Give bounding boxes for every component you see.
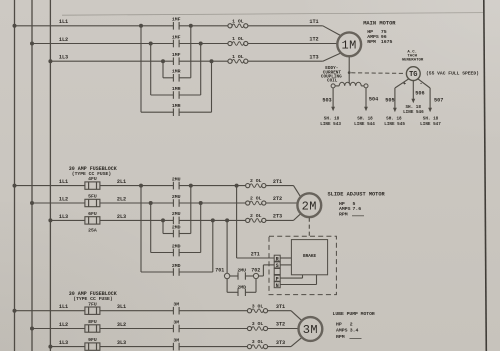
svg-text:3L2: 3L2	[117, 322, 126, 328]
svg-text:2T1: 2T1	[251, 251, 260, 257]
svg-text:2MU: 2MU	[172, 176, 181, 182]
svg-text:2M: 2M	[302, 199, 317, 213]
svg-text:504: 504	[369, 97, 378, 103]
svg-text:701: 701	[215, 267, 224, 273]
svg-text:503: 503	[322, 97, 331, 103]
svg-text:3M: 3M	[173, 302, 179, 308]
svg-text:GENERATOR: GENERATOR	[402, 59, 424, 63]
svg-text:2L3: 2L3	[117, 214, 126, 220]
svg-text:3M: 3M	[173, 337, 179, 343]
svg-text:1L3: 1L3	[59, 214, 68, 220]
svg-text:1M: 1M	[341, 39, 356, 53]
svg-text:2T1: 2T1	[273, 179, 282, 185]
svg-text:1L3: 1L3	[59, 55, 68, 61]
svg-text:LINE 545: LINE 545	[384, 122, 405, 127]
svg-text:1L2: 1L2	[59, 196, 68, 202]
svg-text:TG: TG	[409, 71, 417, 79]
svg-text:1MR: 1MR	[172, 103, 181, 109]
svg-text:1L1: 1L1	[59, 19, 68, 25]
svg-text:7FU: 7FU	[88, 301, 97, 307]
svg-text:1L1: 1L1	[59, 179, 68, 185]
svg-text:(TYPE CC FUSE): (TYPE CC FUSE)	[73, 296, 113, 302]
svg-text:1 OL: 1 OL	[232, 54, 244, 60]
svg-text:506: 506	[415, 91, 424, 97]
svg-text:RPM: RPM	[336, 334, 345, 340]
svg-text:5FU: 5FU	[88, 194, 97, 200]
svg-text:RPM: RPM	[339, 211, 348, 217]
svg-text:1MF: 1MF	[172, 17, 181, 23]
svg-text:1MR: 1MR	[172, 69, 181, 75]
svg-text:LINE 546: LINE 546	[403, 110, 424, 115]
svg-text:4FU: 4FU	[88, 176, 97, 182]
svg-text:2 OL: 2 OL	[250, 178, 262, 184]
svg-text:1 OL: 1 OL	[232, 18, 244, 24]
svg-text:3M: 3M	[173, 319, 179, 325]
svg-text:3 OL: 3 OL	[252, 339, 264, 345]
svg-text:3T3: 3T3	[276, 340, 285, 346]
svg-text:2MU: 2MU	[172, 194, 181, 200]
svg-text:2MD: 2MD	[172, 243, 181, 249]
svg-text:(55 VAC FULL SPEED): (55 VAC FULL SPEED)	[426, 71, 479, 77]
svg-text:3T1: 3T1	[276, 304, 285, 310]
svg-text:25A: 25A	[88, 227, 97, 233]
svg-text:1MR: 1MR	[172, 86, 181, 92]
svg-text:507: 507	[434, 97, 443, 103]
svg-text:1L2: 1L2	[59, 37, 68, 43]
svg-text:8FU: 8FU	[88, 319, 97, 325]
svg-text:1L2: 1L2	[59, 322, 68, 328]
svg-text:9FU: 9FU	[88, 337, 97, 343]
svg-text:BRAKE: BRAKE	[303, 254, 317, 259]
svg-text:LINE 543: LINE 543	[320, 122, 341, 127]
svg-text:1T1: 1T1	[309, 19, 318, 25]
svg-text:3M: 3M	[303, 323, 318, 337]
svg-text:1 OL: 1 OL	[232, 36, 244, 42]
svg-text:3 OL: 3 OL	[252, 321, 264, 327]
svg-text:1L3: 1L3	[59, 340, 68, 346]
svg-text:2MU: 2MU	[172, 211, 181, 217]
svg-text:RPM: RPM	[367, 39, 376, 45]
svg-text:2T3: 2T3	[273, 214, 282, 220]
svg-text:2MD: 2MD	[172, 224, 181, 230]
svg-text:1T2: 1T2	[309, 37, 318, 43]
svg-text:3 OL: 3 OL	[252, 303, 264, 309]
svg-text:6FU: 6FU	[88, 211, 97, 217]
svg-text:LUBE PUMP MOTOR: LUBE PUMP MOTOR	[333, 311, 375, 317]
svg-text:1675: 1675	[381, 39, 393, 45]
svg-text:3.4: 3.4	[350, 328, 359, 334]
svg-text:7.6: 7.6	[353, 206, 362, 212]
svg-text:MAIN MOTOR: MAIN MOTOR	[363, 20, 396, 26]
svg-text:3T2: 3T2	[276, 322, 285, 328]
svg-text:LINE 547: LINE 547	[420, 122, 441, 127]
svg-text:1T3: 1T3	[309, 54, 318, 60]
svg-text:3L3: 3L3	[117, 340, 126, 346]
svg-text:2T2: 2T2	[273, 196, 282, 202]
svg-text:505: 505	[385, 97, 394, 103]
svg-text:AMPS: AMPS	[339, 206, 351, 212]
svg-text:COIL: COIL	[327, 78, 338, 83]
svg-text:SLIDE ADJUST MOTOR: SLIDE ADJUST MOTOR	[328, 192, 386, 198]
svg-text:30 AMP FUSEBLOCK: 30 AMP FUSEBLOCK	[69, 291, 117, 297]
svg-text:2: 2	[350, 322, 353, 328]
svg-text:2MD: 2MD	[172, 263, 181, 269]
svg-text:AMPS: AMPS	[336, 328, 348, 334]
svg-text:2 OL: 2 OL	[250, 196, 262, 202]
svg-text:702: 702	[251, 267, 260, 273]
svg-text:2L2: 2L2	[117, 196, 126, 202]
svg-text:LINE 544: LINE 544	[354, 122, 375, 127]
svg-text:2L1: 2L1	[117, 179, 126, 185]
svg-text:1L1: 1L1	[59, 304, 68, 310]
svg-text:1MF: 1MF	[172, 34, 181, 40]
svg-text:N: N	[276, 283, 279, 289]
svg-text:30 AMP FUSEBLOCK: 30 AMP FUSEBLOCK	[69, 166, 117, 172]
svg-text:3L1: 3L1	[117, 304, 126, 310]
svg-text:2 OL: 2 OL	[250, 213, 262, 219]
svg-text:2MU: 2MU	[237, 267, 246, 273]
svg-text:HP: HP	[336, 322, 342, 328]
svg-text:2MD: 2MD	[237, 285, 246, 291]
svg-text:1MF: 1MF	[172, 52, 181, 58]
